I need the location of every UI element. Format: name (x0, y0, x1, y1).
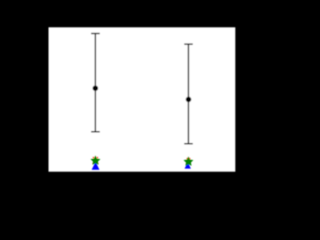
axes background (white plot area) (49, 27, 236, 171)
blue triangle marker 1 (92, 162, 100, 170)
errorbar 2 point marker (186, 97, 192, 103)
errorbar 2 bottom cap (184, 143, 192, 145)
red marker 2 (mostly hidden, peeks at star notches) (187, 158, 191, 159)
green star marker 2 (184, 157, 194, 166)
errorbar 1 top cap (91, 33, 100, 35)
blue triangle marker 2 (185, 162, 191, 168)
errorbar 2 top cap (184, 43, 192, 45)
errorbar 1 point marker (93, 85, 99, 91)
errorbar 1 bottom cap (91, 131, 100, 133)
green star marker 1 (91, 156, 101, 165)
errorbar 1 vertical line (94, 34, 96, 132)
red marker 1 (mostly hidden, peeks at star notches) (92, 157, 98, 164)
errorbar 2 vertical line (187, 44, 189, 144)
